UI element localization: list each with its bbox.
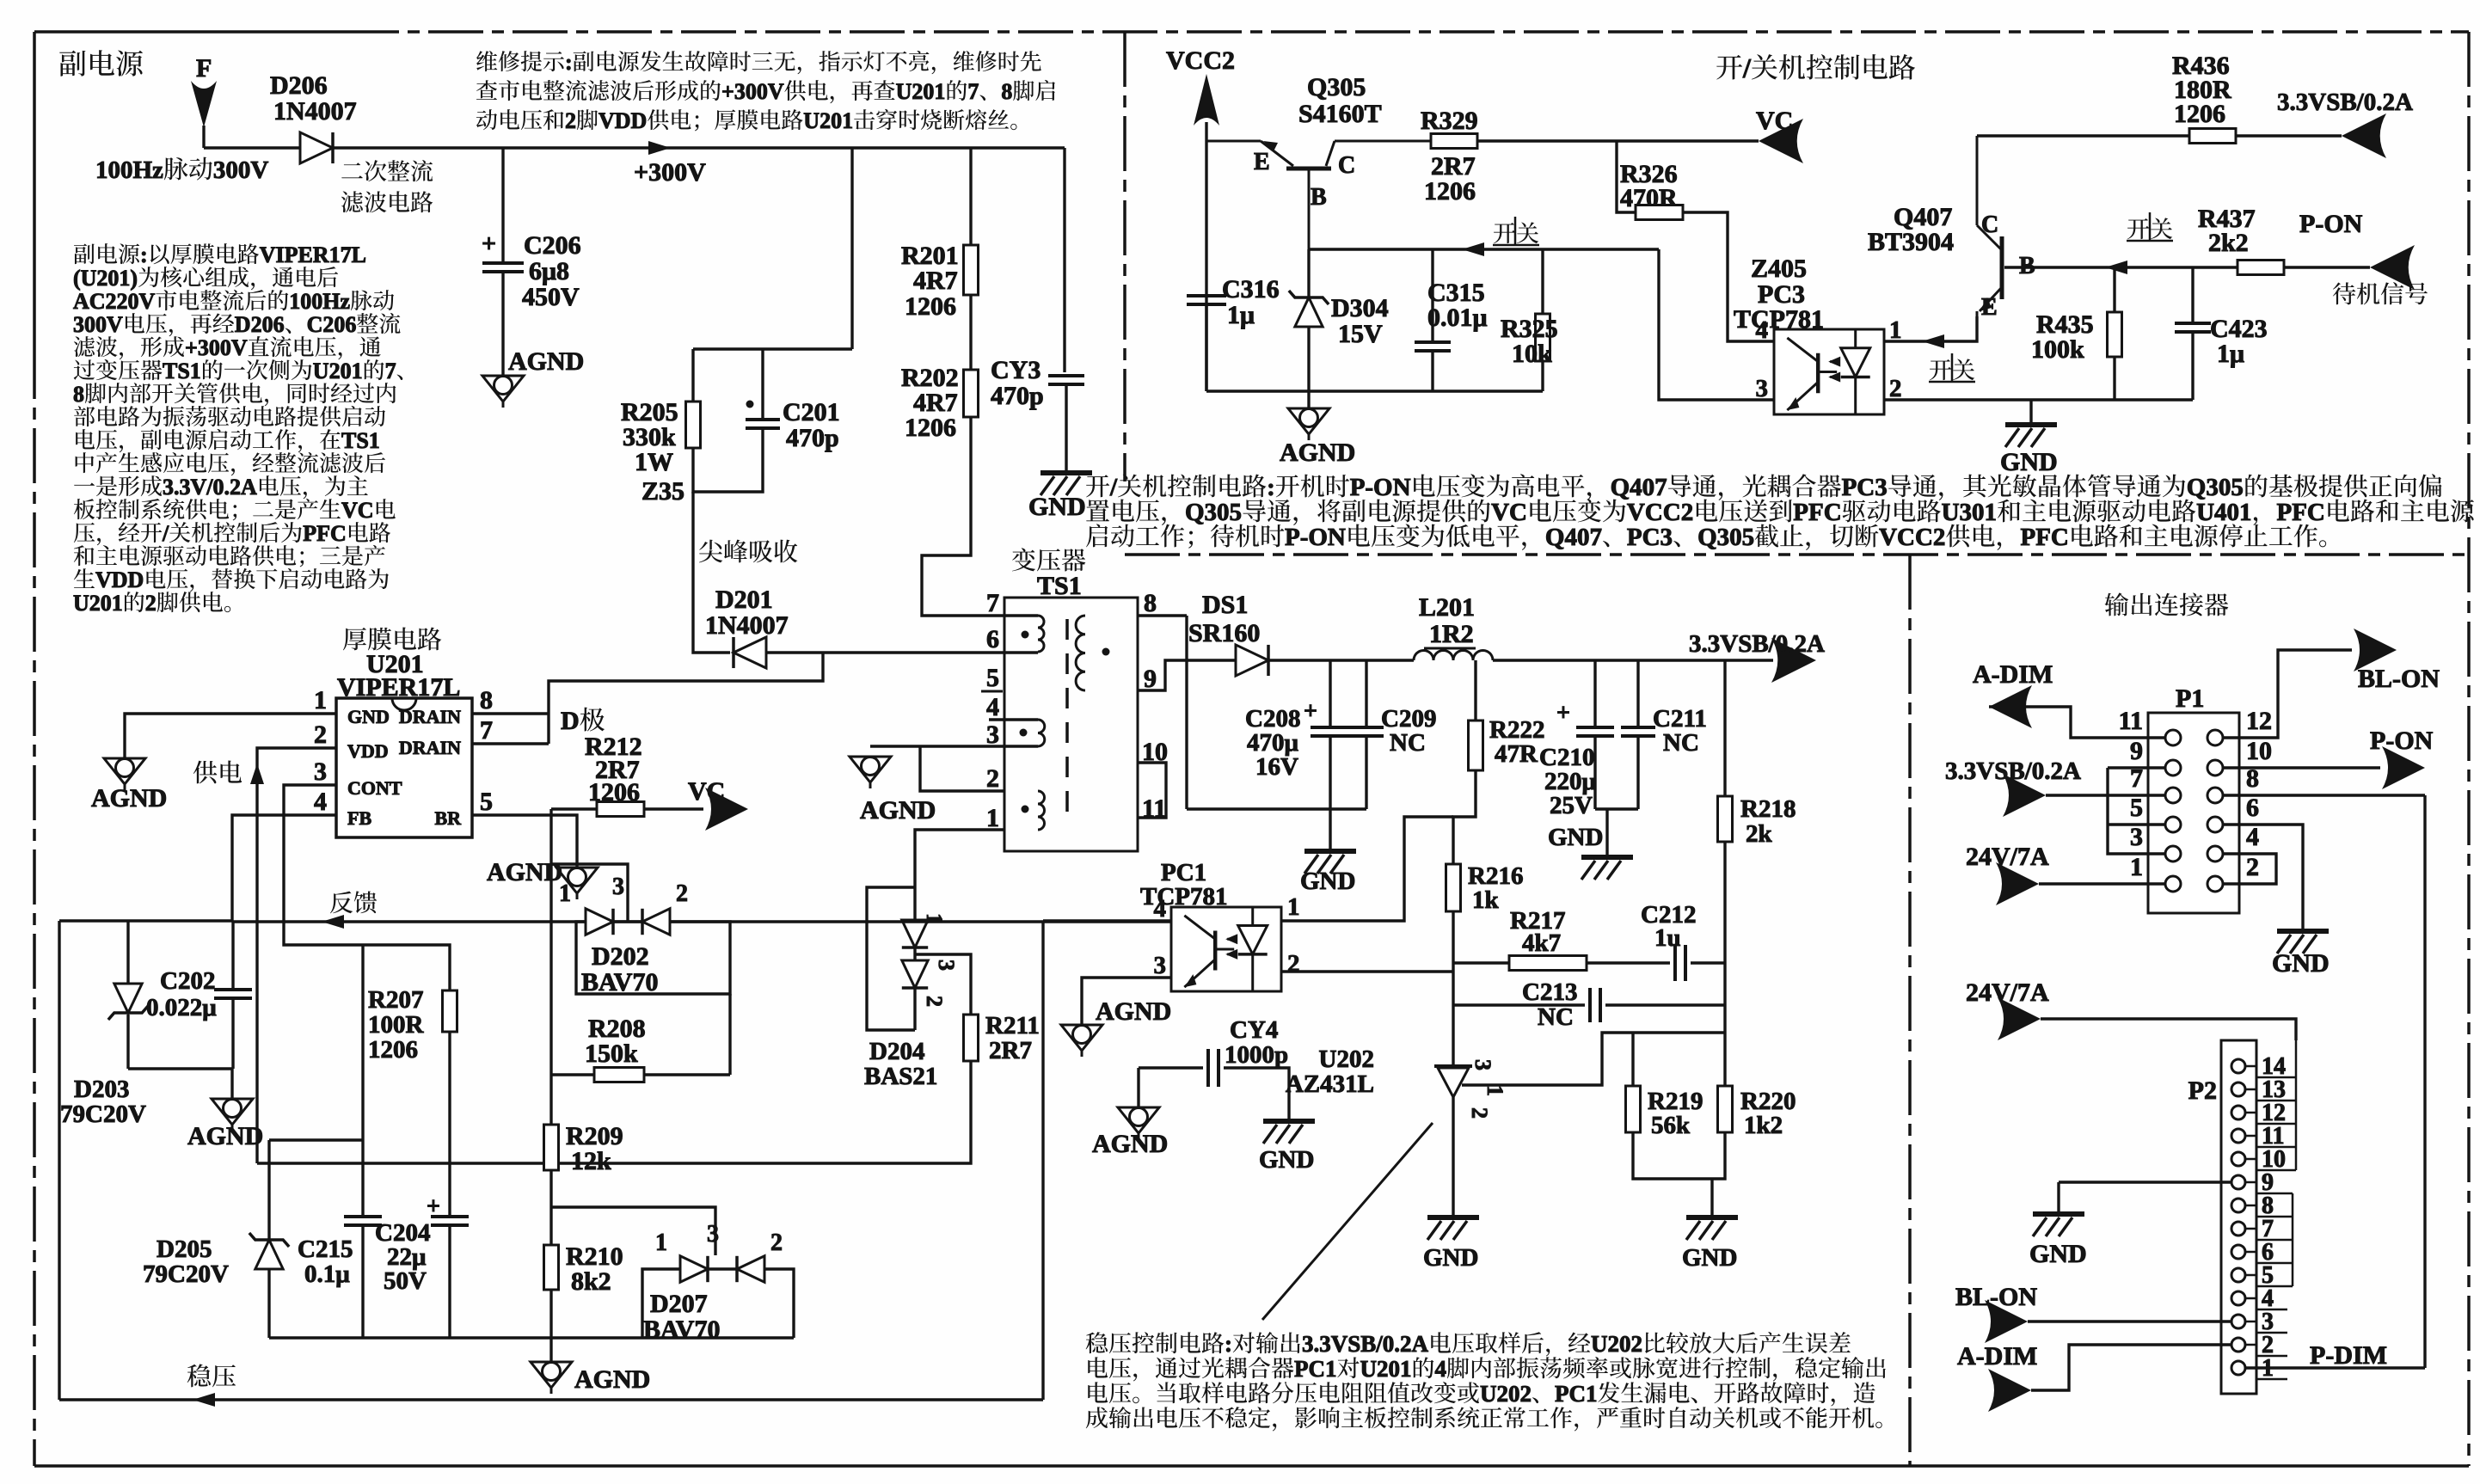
text 副电源 paragraph line 12 (74, 498, 396, 523)
svg-text:BAS21: BAS21 (864, 1063, 937, 1090)
text 稳压控制电路 paragraph line 1 (1086, 1331, 1851, 1357)
wire P1 pin12 to BL-ON (2223, 650, 2352, 738)
wire VCC2 column (1205, 122, 1207, 391)
P2 number underline (2256, 1309, 2287, 1311)
svg-text:470p: 470p (991, 382, 1044, 410)
arrow on +300V rail (648, 141, 671, 155)
svg-text:3.3VSB/0.2A: 3.3VSB/0.2A (1302, 1331, 1429, 1357)
label 开关 at PC3 (1930, 359, 1974, 380)
text 副电源 paragraph line 9 (76, 428, 380, 453)
svg-text:1μ: 1μ (1227, 301, 1255, 329)
svg-text:D205: D205 (157, 1236, 212, 1263)
wire U201 pin1 GND to AGND (125, 714, 336, 758)
svg-text:1: 1 (2130, 853, 2143, 881)
resistor R211 (964, 1015, 979, 1061)
wire R222 to R216 (1453, 770, 1476, 864)
svg-text:GND: GND (1300, 868, 1355, 895)
svg-text:VCC2: VCC2 (1879, 524, 1945, 551)
text 副电源 paragraph line 3 (73, 289, 394, 314)
label 开关 at Q305 (1494, 222, 1538, 243)
svg-text:7: 7 (967, 79, 979, 104)
svg-text:25V: 25V (1550, 792, 1593, 819)
ground AGND symbol at U201 pin5 (556, 868, 598, 899)
svg-text:C201: C201 (783, 398, 840, 426)
wire to R212 (551, 807, 597, 810)
svg-text:3: 3 (986, 721, 999, 749)
svg-text:1N4007: 1N4007 (273, 97, 357, 126)
svg-text:VC: VC (1756, 107, 1793, 135)
label 稳压 (187, 1364, 236, 1388)
svg-text:C202: C202 (160, 967, 215, 995)
wire C202 bottom (231, 998, 234, 1069)
ground AGND symbol at CY4 (1118, 1107, 1159, 1139)
text 开关机控制电路 paragraph line 1 (1086, 474, 2441, 501)
wire R217 to C212 (1587, 961, 1670, 964)
wire CY4 left (1139, 1066, 1203, 1069)
pin 1 of P1 (2148, 883, 2165, 886)
svg-text:AZ431L: AZ431L (1286, 1070, 1374, 1098)
svg-text:0.01μ: 0.01μ (1427, 304, 1488, 332)
pin 8 of P1 (2207, 788, 2223, 803)
wire C210 C211 gnd rail (1595, 807, 1638, 810)
arrow 24V into P2 (1998, 997, 2041, 1040)
arrow BL-ON into P2 (1985, 1300, 2028, 1343)
svg-text:D201: D201 (715, 586, 773, 614)
svg-text:AGND: AGND (508, 347, 584, 376)
wire Z35 down to D201 (693, 492, 730, 653)
IC U201 VIPER17L body (336, 698, 472, 837)
transformer TS1 dot secondary (1102, 648, 1110, 656)
ground AGND symbol at PC1 (1061, 1025, 1102, 1057)
svg-text:(U201): (U201) (73, 266, 138, 291)
wire U201 pin5 BR to AGND (472, 815, 577, 868)
wire base rail to R325 (1541, 249, 1544, 314)
wire snubber bottom rail Z35 (693, 428, 763, 492)
arrow VCC2 up (1194, 74, 1219, 126)
resistor R325 (1536, 314, 1550, 361)
svg-text:2: 2 (1287, 950, 1300, 978)
svg-text:2: 2 (314, 721, 327, 749)
capacitor C201 (746, 420, 780, 428)
label 待机信号 (2333, 282, 2428, 304)
svg-text:Q305: Q305 (1307, 73, 1366, 101)
svg-text:50V: 50V (384, 1267, 427, 1295)
wire U202 ref rail (1462, 1033, 1725, 1085)
wire pin8 to gnd rail (1185, 616, 1188, 809)
svg-text:U202: U202 (1319, 1046, 1374, 1073)
inductor L201 (1414, 651, 1493, 661)
svg-text:3.3VSB/0.2A: 3.3VSB/0.2A (1945, 757, 2081, 785)
wire Q407 collector to R436 (1977, 134, 2189, 137)
border section divider horizontal (on-off section bottom) (1125, 553, 2469, 556)
svg-text:C213: C213 (1522, 978, 1577, 1006)
svg-text:GND: GND (347, 706, 390, 727)
svg-text:VC: VC (688, 777, 725, 806)
wire 稳压 rail (59, 1398, 1043, 1401)
wire feedback rail (232, 920, 1171, 923)
svg-text:CY3: CY3 (991, 356, 1040, 384)
wire BL-ON to P2 pin3 (2028, 1320, 2231, 1322)
wire CY4 right to GND (1224, 1068, 1289, 1121)
svg-text:100Hz: 100Hz (95, 156, 163, 184)
P2 number underline (2256, 1355, 2287, 1358)
net label AGND under C202 (187, 1122, 263, 1150)
wire to C210 (1593, 660, 1596, 727)
svg-text:3: 3 (1154, 952, 1167, 979)
svg-text:Q407: Q407 (1545, 524, 1602, 551)
wire D201 to TS1 pin6 (766, 651, 1004, 653)
svg-text:5: 5 (2130, 794, 2143, 822)
svg-text:SR160: SR160 (1188, 619, 1260, 647)
svg-text:100Hz: 100Hz (289, 289, 350, 314)
svg-text:1206: 1206 (905, 414, 956, 442)
svg-text:CY4: CY4 (1230, 1016, 1278, 1044)
svg-text:R218: R218 (1740, 795, 1796, 823)
capacitor CY3 (1048, 376, 1084, 384)
transformer TS1 body (1004, 598, 1138, 851)
svg-text:P-ON: P-ON (2370, 727, 2434, 755)
wire TS1 pin2 to AGND (920, 746, 1004, 791)
wire D204 bottom (913, 988, 916, 1030)
label 二次整流 (341, 160, 433, 181)
ground GND symbol at CY4 (1263, 1121, 1315, 1144)
arrow VC input (1759, 119, 1803, 163)
resistor R209 (544, 1125, 559, 1170)
wire 3.3VSB to R218 (1723, 660, 1726, 796)
svg-text:2: 2 (1467, 1107, 1492, 1119)
svg-text:3: 3 (314, 757, 327, 786)
svg-text:2: 2 (922, 996, 947, 1007)
wire left feedback riser (58, 921, 60, 1400)
arrow 24V into P1 (1996, 862, 2039, 905)
wire to R205 (691, 349, 694, 402)
wire to C215 (361, 1140, 364, 1217)
capacitor C215 (344, 1217, 382, 1225)
svg-text:1R2: 1R2 (1429, 620, 1474, 648)
wire C215 bottom (361, 1225, 364, 1338)
wire C212 to R218 column (1691, 961, 1725, 964)
ground AGND symbol at C206 (482, 376, 524, 408)
wire D203 C202 bottom rail (128, 1067, 233, 1070)
svg-text:GND: GND (1548, 824, 1603, 851)
svg-text:3.3VSB/0.2A: 3.3VSB/0.2A (1689, 630, 1825, 658)
wire to D206 (204, 146, 304, 149)
label 供电 (193, 761, 242, 784)
wire D202 center (613, 920, 642, 923)
text 维修提示 paragraph line 1 (476, 50, 1041, 75)
svg-text:NC: NC (1663, 729, 1699, 757)
svg-text:A-DIM: A-DIM (1957, 1342, 2037, 1371)
wire R218 down to R220 (1723, 842, 1726, 1086)
leader line to U202 (1262, 1123, 1433, 1320)
svg-text:1: 1 (1889, 316, 1902, 344)
pin 12 of P1 (2207, 730, 2223, 745)
svg-text:1k: 1k (1472, 886, 1500, 914)
wire ref to R219 (1631, 1033, 1634, 1086)
wire TS1 pin9 to DS1 (1138, 660, 1241, 690)
svg-text:PC3: PC3 (1842, 474, 1888, 501)
svg-text:3.3VSB/0.2A: 3.3VSB/0.2A (2277, 89, 2413, 116)
resistor R218 (1718, 796, 1733, 842)
text 副电源 paragraph line 4 (73, 312, 401, 337)
svg-text:D206: D206 (270, 71, 328, 100)
pin 10 of P1 (2207, 760, 2223, 776)
zener diode D304 (1295, 297, 1323, 327)
wire VC rail to R326 (1617, 141, 1636, 212)
svg-text:16V: 16V (1255, 753, 1298, 781)
svg-text:DRAIN: DRAIN (399, 737, 461, 758)
svg-text:PFC: PFC (2277, 499, 2325, 526)
svg-text:12: 12 (2246, 707, 2272, 735)
svg-text:GND: GND (1682, 1244, 1737, 1272)
svg-text:150k: 150k (585, 1039, 638, 1068)
arrow 供电 up (250, 763, 264, 784)
resistor R201 (964, 245, 979, 295)
arrow on PC3 pin1 wire (1922, 334, 1944, 348)
svg-text:15V: 15V (1338, 320, 1383, 348)
wire Q407 base rail (2004, 266, 2238, 268)
wire D203 C202 top rail (59, 919, 232, 922)
svg-text:4: 4 (2246, 823, 2259, 851)
wire R208 right (644, 1073, 730, 1076)
svg-text:VDD: VDD (95, 567, 144, 592)
svg-text:GND: GND (2272, 949, 2330, 978)
wire to C209 (1365, 660, 1367, 727)
wire PC1 pin4 (1043, 919, 1171, 922)
wire R219 R220 bottoms (1633, 1132, 1725, 1179)
svg-text:AGND: AGND (574, 1365, 650, 1394)
wire TS1 pin7 inner (1004, 614, 1038, 616)
svg-text:D207: D207 (650, 1290, 708, 1318)
wire snubber top rail (693, 347, 852, 350)
svg-text:+: + (482, 230, 496, 258)
transformer TS1 dot winding 2-1 (1022, 806, 1029, 813)
svg-text:B: B (1311, 184, 1327, 211)
capacitor CY4 (1208, 1049, 1219, 1087)
svg-text:/: / (162, 521, 169, 546)
svg-text:C: C (1338, 152, 1355, 179)
arrow on Q407 base (2105, 261, 2127, 274)
diode D201 (734, 637, 766, 668)
section title 输出连接器 (2105, 592, 2229, 616)
pin 9 of P1 (2148, 767, 2165, 770)
svg-text:AGND: AGND (187, 1122, 263, 1150)
svg-text:GND: GND (2000, 448, 2058, 476)
wire R216 to U202 (1452, 911, 1454, 1066)
pin 3 of P2 (2231, 1315, 2245, 1328)
resistor R220 (1718, 1086, 1733, 1132)
svg-text:6: 6 (986, 625, 999, 653)
wire base rail to R435 (2113, 267, 2115, 312)
svg-text:+: + (1304, 698, 1317, 725)
svg-text:GND: GND (1423, 1244, 1478, 1272)
svg-text:3: 3 (1470, 1059, 1495, 1070)
svg-text:1206: 1206 (588, 778, 640, 806)
svg-text:P-ON: P-ON (1350, 474, 1411, 501)
wire R210 bottom (549, 1290, 552, 1338)
text 副电源 paragraph line 8 (74, 406, 385, 426)
wire P1 pin4 to pin2 (2223, 854, 2276, 884)
wire D207 pin1 side (642, 1269, 680, 1338)
svg-text:NC: NC (1390, 729, 1426, 757)
wire AGND stem (549, 1338, 552, 1362)
svg-text:10: 10 (2246, 737, 2272, 765)
resistor R222 (1469, 721, 1483, 770)
section title 副电源 (59, 50, 143, 77)
svg-text:3: 3 (2130, 823, 2143, 851)
label D极 (561, 707, 605, 735)
wire R211 to VDD rail (257, 1061, 971, 1163)
label 开关 at Q407 (2127, 218, 2172, 239)
svg-text:PFC: PFC (1793, 499, 1841, 526)
wire gnd stem C210 (1605, 809, 1608, 857)
svg-text:56k: 56k (1651, 1112, 1691, 1139)
svg-text:P2: P2 (2188, 1076, 2217, 1105)
wire CY3 to GND (1065, 384, 1067, 473)
svg-text:AGND: AGND (1280, 438, 1355, 467)
svg-text:F: F (196, 54, 212, 83)
diode D202 left (586, 909, 613, 935)
ground GND symbol at CY3 (1040, 473, 1092, 495)
svg-text:2: 2 (2246, 853, 2259, 881)
text 稳压控制电路 paragraph line 2 (1088, 1356, 1886, 1382)
wire PC1 pin2 to U202 column (1281, 970, 1453, 972)
pin 13 of P2 (2231, 1082, 2245, 1096)
svg-text:79C20V: 79C20V (143, 1260, 229, 1288)
wire AGND bottom rail (269, 1336, 794, 1339)
capacitor C211 (1621, 727, 1655, 736)
svg-text:TS1: TS1 (1037, 572, 1082, 600)
net label AGND bottom left (574, 1365, 650, 1394)
svg-text:DRAIN: DRAIN (399, 706, 461, 727)
net label AGND on-off block (1280, 438, 1355, 467)
svg-text:GND: GND (2029, 1240, 2087, 1268)
svg-text:2: 2 (565, 108, 576, 133)
wire between D204 diodes (913, 947, 916, 960)
label 厚膜电路 (343, 628, 441, 651)
svg-text:P-DIM: P-DIM (2310, 1341, 2387, 1370)
wire P1 pin8 down to P2 pin1 (2423, 795, 2426, 1368)
resistor R219 (1626, 1086, 1641, 1132)
wire D203 bottom (126, 1015, 129, 1069)
svg-text:AGND: AGND (1092, 1130, 1168, 1158)
wire R202 to TS1 pin7 (922, 417, 1004, 616)
net label AGND at CY4 (1092, 1130, 1168, 1158)
pin 2 of P2 (2231, 1338, 2245, 1352)
wire to AGND under C202 (230, 1069, 233, 1099)
svg-text:+300V: +300V (721, 79, 784, 104)
wire +300V to R201 (969, 148, 972, 245)
pin 11 of P2 (2231, 1129, 2245, 1143)
wire PC1 pin3 to AGND (1082, 978, 1171, 1025)
svg-text:U401: U401 (2196, 499, 2251, 526)
section title 开/关机控制电路 (1716, 52, 1915, 83)
svg-text:1206: 1206 (905, 292, 956, 321)
resistor R210 (544, 1245, 559, 1290)
connector P2 body (2221, 1040, 2256, 1394)
text 维修提示 paragraph line 2 (476, 79, 1055, 104)
svg-text:8: 8 (73, 382, 84, 407)
arrow A-DIM (1989, 685, 2032, 728)
wire +300V to C206 (501, 148, 504, 262)
arrow VC output (705, 788, 748, 831)
svg-text::: : (565, 50, 573, 75)
capacitor C208 (1311, 727, 1350, 736)
svg-text:6: 6 (2246, 794, 2259, 822)
svg-text:1: 1 (986, 804, 999, 832)
ground GND symbol at PC3 (2005, 425, 2057, 447)
pin 11 of P1 (2148, 737, 2165, 739)
svg-text:24V/7A: 24V/7A (1966, 843, 2049, 871)
svg-text:1μ: 1μ (2217, 340, 2244, 368)
svg-text:/: / (1109, 474, 1118, 501)
svg-text:4: 4 (1154, 895, 1167, 923)
wire P1 pin6 to GND (2223, 825, 2303, 931)
svg-text:R329: R329 (1421, 107, 1478, 135)
pin 2 of P1 (2207, 876, 2223, 892)
wire C315 down (1431, 351, 1433, 391)
resistor R436 (2189, 129, 2236, 144)
wire C210 down (1593, 736, 1596, 809)
zener diode D205 (255, 1240, 283, 1269)
svg-text:7: 7 (986, 589, 999, 617)
svg-text:3: 3 (934, 960, 959, 971)
arrow 3.3VSB into P1 (2003, 774, 2046, 817)
capacitor C206 (482, 263, 524, 272)
svg-text:DS1: DS1 (1202, 591, 1248, 619)
wire U201 pin2 VDD supply (257, 748, 336, 1163)
wire D204 bypass box (867, 887, 915, 1030)
node F input arrow (191, 81, 217, 127)
P2 cell column 14-10 (2256, 1040, 2296, 1170)
wire bracket pin5 (2108, 823, 2165, 825)
transistor Q305 (1206, 141, 1431, 249)
capacitor C209 (1349, 727, 1384, 736)
arrow 3.3VSB output (1771, 638, 1816, 683)
svg-text:11: 11 (2119, 707, 2143, 735)
svg-text:2: 2 (986, 764, 999, 793)
svg-text:PC1: PC1 (1555, 1381, 1598, 1407)
svg-text:U201: U201 (313, 359, 363, 383)
zener diode D203 (114, 984, 142, 1013)
wire D202 outer box (576, 922, 730, 994)
svg-text:C206: C206 (524, 231, 581, 260)
P2 number underline (2256, 1378, 2287, 1381)
transformer TS1 dot winding 4-3 (1020, 729, 1028, 737)
svg-text:Q305: Q305 (1185, 499, 1242, 526)
svg-text:E: E (1981, 294, 1998, 321)
transformer TS1 core dashed line (1065, 619, 1069, 821)
transformer TS1 secondary winding 8-9 (1076, 616, 1085, 690)
svg-text:BAV70: BAV70 (581, 968, 658, 996)
pin 14 of P2 (2231, 1059, 2245, 1073)
wire base to D304 (1307, 249, 1310, 297)
svg-text:8: 8 (1144, 589, 1157, 617)
svg-text:TS1: TS1 (163, 359, 201, 383)
svg-text:100k: 100k (2031, 335, 2084, 364)
wire U202 anode to GND (1452, 1097, 1454, 1217)
net label AGND at U201 pin5 (487, 858, 562, 886)
svg-text:D: D (561, 707, 580, 735)
wire PC3 pin1 to Q407 emitter (1884, 316, 1977, 341)
svg-text:4k7: 4k7 (1522, 929, 1561, 957)
svg-text:3: 3 (612, 874, 624, 900)
ground GND symbol at C208 (1304, 851, 1356, 874)
wire D205 bottom (267, 1269, 270, 1338)
optocoupler PC1 (1171, 907, 1281, 991)
svg-text:P-ON: P-ON (2299, 210, 2363, 238)
text 副电源 paragraph line 6 (74, 359, 403, 383)
